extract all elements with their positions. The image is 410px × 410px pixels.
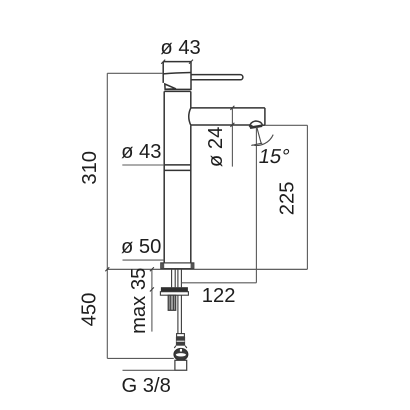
svg-text:15°: 15° bbox=[257, 146, 291, 168]
supply pipe upper bbox=[178, 269, 182, 287]
ø50 leader bbox=[123, 259, 165, 261]
tick cap left bbox=[161, 60, 165, 64]
15deg slant line bbox=[257, 127, 262, 144]
122 dimension line bbox=[181, 282, 256, 284]
valve lower body bbox=[175, 360, 187, 370]
15deg arc bbox=[252, 135, 273, 146]
G3/8 leader bbox=[123, 369, 187, 371]
spout outlet leader to 225 bbox=[265, 124, 308, 126]
body column right edge upper bbox=[190, 91, 192, 108]
mounting nut bbox=[160, 292, 188, 296]
svg-text:122: 122 bbox=[202, 285, 236, 307]
ø43 mid leader bbox=[122, 164, 164, 166]
lever pivot curve bbox=[163, 73, 191, 74]
tick max35 top bbox=[150, 267, 154, 271]
svg-text:225: 225 bbox=[277, 182, 299, 216]
valve flare bbox=[174, 346, 187, 348]
svg-text:G 3/8: G 3/8 bbox=[122, 375, 171, 397]
body column left edge bbox=[163, 91, 165, 263]
svg-text:450: 450 bbox=[79, 293, 101, 327]
threaded rod pair bbox=[172, 269, 176, 287]
threaded stud bbox=[168, 295, 176, 310]
ø43 top leader (cap level) bbox=[107, 72, 163, 74]
max35 dimension line bbox=[151, 269, 153, 331]
base flange ø50 bbox=[161, 263, 194, 269]
body column right edge lower bbox=[190, 125, 192, 263]
spout bottom edge bbox=[191, 124, 250, 126]
tick o24 top bbox=[230, 106, 234, 110]
lever handle bbox=[191, 75, 243, 80]
mounting surface line bbox=[107, 268, 307, 270]
valve ball bbox=[174, 349, 188, 361]
tick cap right bbox=[189, 60, 193, 64]
body column top bbox=[164, 90, 191, 92]
left dimension line (310/450) bbox=[106, 73, 108, 358]
supply pipe lower bbox=[178, 295, 182, 334]
spout left rounded cap bbox=[189, 108, 191, 125]
flange left end fill bbox=[161, 263, 164, 268]
svg-text:max 35: max 35 bbox=[128, 268, 150, 334]
flange right end fill bbox=[191, 263, 194, 268]
hose knurled collar bbox=[176, 337, 185, 346]
spout top edge bbox=[191, 107, 265, 109]
ø24 dimension line bbox=[231, 108, 233, 167]
tick left line counter bbox=[105, 267, 109, 271]
aerator drop line bbox=[255, 127, 257, 283]
cartridge cap (head top, ø43) bbox=[163, 62, 191, 90]
aerator dome bbox=[249, 121, 262, 127]
column joint line upper bbox=[164, 164, 191, 166]
aerator dark lip bbox=[250, 126, 262, 128]
svg-text:ø 43: ø 43 bbox=[160, 37, 200, 59]
aerator left blob bbox=[249, 125, 252, 128]
hose nut top ring bbox=[177, 334, 185, 337]
svg-text:ø 24: ø 24 bbox=[205, 127, 227, 167]
225 dimension line bbox=[306, 125, 308, 269]
450 bottom leader bbox=[107, 357, 174, 359]
column joint line lower bbox=[164, 169, 191, 171]
tick o24 bottom bbox=[230, 123, 234, 127]
svg-text:ø 43: ø 43 bbox=[121, 141, 161, 163]
svg-text:ø 50: ø 50 bbox=[121, 236, 161, 258]
svg-text:310: 310 bbox=[79, 151, 101, 185]
lever open-position wedge bbox=[165, 84, 176, 89]
arc end tick bbox=[251, 143, 262, 145]
spout right end bbox=[264, 108, 266, 125]
washer (dark) bbox=[161, 287, 188, 292]
tick max35 bottom bbox=[150, 287, 154, 291]
